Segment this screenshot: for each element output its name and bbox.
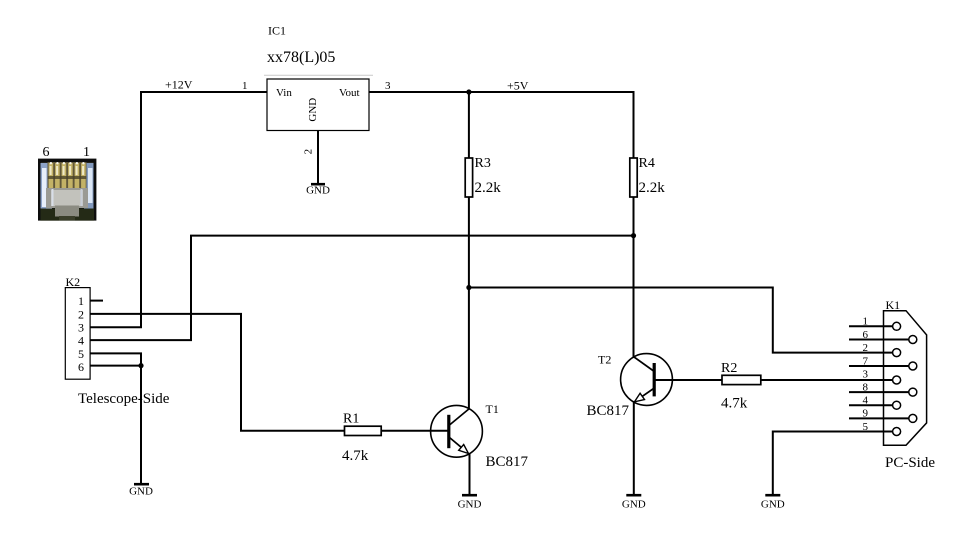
wire K2 pin 3 to +12V riser xyxy=(90,326,142,328)
svg-text:4.7k: 4.7k xyxy=(721,396,748,412)
svg-text:GND: GND xyxy=(458,499,482,511)
svg-text:7: 7 xyxy=(863,355,869,367)
resistor R1 xyxy=(345,426,382,435)
K1 pin 1 stub and pad xyxy=(849,322,901,330)
op-amp U1 regulator IC1 box xyxy=(267,79,369,131)
svg-text:+5V: +5V xyxy=(507,79,529,93)
svg-text:1: 1 xyxy=(78,294,84,308)
svg-text:Vout: Vout xyxy=(339,87,360,99)
resistor R4 xyxy=(630,158,637,197)
ground symbol K1 xyxy=(761,495,785,510)
K1 pin 6 stub and pad xyxy=(849,336,917,344)
photo of RJ12 connector xyxy=(38,159,96,221)
wire K2 pin 4 to T2 collector net xyxy=(90,236,634,341)
resistor R3 xyxy=(465,158,472,197)
svg-text:GND: GND xyxy=(622,499,646,511)
wire R4 bottom to T2 collector xyxy=(633,197,635,357)
svg-text:Telescope-Side: Telescope-Side xyxy=(78,391,170,407)
svg-text:R3: R3 xyxy=(475,156,491,171)
wire +12V from K2 pin3 up and right to IC1 Vin xyxy=(141,92,267,327)
svg-text:R4: R4 xyxy=(639,156,655,171)
ground symbol IC1 xyxy=(306,184,330,196)
svg-text:4: 4 xyxy=(78,334,84,348)
svg-text:6: 6 xyxy=(863,329,869,341)
junction dot +5V / R3 xyxy=(466,89,471,94)
svg-text:9: 9 xyxy=(863,408,869,420)
svg-text:5: 5 xyxy=(78,347,84,361)
svg-text:GND: GND xyxy=(761,499,785,511)
transistor Q1 T1 xyxy=(431,405,483,457)
junction dot T1 collector node xyxy=(466,285,471,290)
faint artifact line above IC1 box xyxy=(264,74,373,76)
wire R1 to T1 base xyxy=(381,430,431,432)
K1 pin 3 pad xyxy=(893,376,901,384)
svg-text:2: 2 xyxy=(303,149,315,155)
svg-text:6: 6 xyxy=(43,145,50,160)
transistor Q2 T2 xyxy=(621,354,673,406)
K1 pin 9 stub and pad xyxy=(849,414,917,422)
wire T1 collector node to K1 pin 2 xyxy=(469,288,893,353)
wire K1 pin 5 to ground xyxy=(773,432,893,495)
svg-text:8: 8 xyxy=(863,381,869,393)
wire K2 pin 2 to R1 xyxy=(90,314,345,431)
svg-text:3: 3 xyxy=(385,80,391,92)
wire T2 base to R2 xyxy=(673,379,724,381)
wire +5V rail from Vout to R4 branch xyxy=(369,92,634,158)
K1 pin 7 stub and pad xyxy=(849,362,917,370)
svg-text:R1: R1 xyxy=(343,412,359,427)
wire K2 pin 1 stub xyxy=(90,300,103,302)
svg-text:+12V: +12V xyxy=(165,78,193,92)
ground symbol T2 xyxy=(622,495,646,510)
svg-text:1: 1 xyxy=(863,316,869,328)
junction dot K2 pin 6 xyxy=(138,363,143,368)
wire T1 emitter to ground xyxy=(469,453,471,494)
K1 pin 5 pad xyxy=(893,428,901,436)
ground symbol T1 xyxy=(458,495,482,510)
svg-text:4.7k: 4.7k xyxy=(342,448,369,464)
K1 pin 8 stub and pad xyxy=(849,388,917,396)
svg-text:1: 1 xyxy=(242,80,248,92)
resistor R2 xyxy=(722,375,761,384)
svg-text:T2: T2 xyxy=(598,353,611,367)
svg-text:2.2k: 2.2k xyxy=(475,180,502,196)
svg-text:4: 4 xyxy=(863,395,869,407)
svg-text:K1: K1 xyxy=(886,298,901,312)
K1 pin 2 pad xyxy=(893,349,901,357)
K1 pin 4 stub and pad xyxy=(849,401,901,409)
wire +5V to R3 top xyxy=(468,92,470,158)
svg-text:IC1: IC1 xyxy=(268,24,286,38)
wire K2 ground drop xyxy=(140,366,142,483)
connector K2 box xyxy=(65,288,90,380)
svg-text:GND: GND xyxy=(306,185,330,197)
connector K1 D-sub body xyxy=(884,311,927,446)
svg-text:T1: T1 xyxy=(486,402,499,416)
wire K2 pin 6 xyxy=(90,365,141,367)
svg-text:2.2k: 2.2k xyxy=(639,180,666,196)
svg-text:2: 2 xyxy=(863,342,869,354)
svg-text:BC817: BC817 xyxy=(587,403,630,419)
ground symbol K2 xyxy=(129,484,153,497)
svg-text:3: 3 xyxy=(863,369,869,381)
svg-text:2: 2 xyxy=(78,307,84,321)
wire IC1 pin 2 to ground xyxy=(317,131,319,184)
svg-text:6: 6 xyxy=(78,360,84,374)
svg-text:1: 1 xyxy=(83,145,90,160)
svg-text:R2: R2 xyxy=(721,361,737,376)
wire R2 to K1 pin 3 xyxy=(761,379,892,381)
svg-text:PC-Side: PC-Side xyxy=(885,455,935,471)
svg-text:xx78(L)05: xx78(L)05 xyxy=(267,49,335,66)
wire T2 emitter to ground xyxy=(633,401,635,494)
junction dot K2 pin4 net at R4/T2 line xyxy=(631,233,636,238)
svg-text:GND: GND xyxy=(307,98,319,122)
svg-text:BC817: BC817 xyxy=(486,454,529,470)
wire K2 pin 5 down to pin 6 junction xyxy=(90,353,141,365)
svg-text:K2: K2 xyxy=(66,275,81,289)
svg-text:Vin: Vin xyxy=(276,87,292,99)
wire R3 bottom to T1 collector xyxy=(468,197,470,409)
svg-text:3: 3 xyxy=(78,321,84,335)
svg-text:GND: GND xyxy=(129,486,153,498)
